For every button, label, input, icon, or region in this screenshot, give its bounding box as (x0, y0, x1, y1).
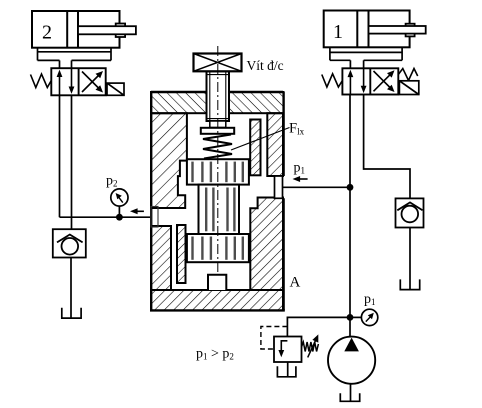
spool stem (199, 185, 240, 234)
wire valve2 A down (59, 95, 61, 217)
body top band right (229, 92, 284, 113)
body outer border (150, 92, 285, 310)
leader line Flx (231, 128, 290, 151)
flow arrow p1 port (293, 176, 308, 182)
body right wall (267, 113, 283, 176)
pedestal stop (208, 275, 226, 290)
body top band left (151, 92, 207, 113)
gauge p2 (111, 189, 128, 217)
spring Flx (203, 135, 232, 159)
spool lower land (187, 234, 249, 262)
valve V1 spring left (322, 74, 343, 87)
tank T2 (62, 308, 81, 318)
gauge p1 (350, 309, 378, 325)
valve V1 solenoid (399, 81, 418, 95)
cylinder 2 body (32, 11, 120, 48)
body bottom band (151, 290, 283, 311)
valve V1 down arrow (361, 68, 367, 93)
cylinder 1 piston (357, 11, 368, 48)
relief valve RV spring (302, 342, 319, 352)
junction node p2 (116, 214, 123, 221)
relief valve RV adjust arrow (308, 334, 319, 357)
tank T3 relief (277, 366, 296, 377)
valve V2 down arrow (69, 68, 75, 94)
body sleeve strip (250, 120, 260, 176)
tank T4 pump (340, 393, 359, 401)
wire valve2 port A up (59, 60, 61, 68)
valve V2 crossed arrows (82, 71, 103, 93)
spool upper land (187, 159, 249, 184)
svg-text:1: 1 (333, 21, 343, 43)
wire main pressure line (349, 95, 351, 340)
body lower left block (151, 226, 171, 290)
wire valve1 B down (364, 95, 410, 199)
right port fitting (275, 176, 283, 198)
wire p1 port horizontal (282, 186, 350, 188)
valve V2 up arrow (57, 70, 63, 96)
svg-text:Vít đ/c: Vít đ/c (247, 58, 284, 73)
valve V2 spring (31, 74, 52, 88)
relief valve RV pilot dashed (261, 327, 288, 350)
centerline (217, 46, 219, 275)
check valve CV2 (53, 229, 86, 257)
valve V1 spring right (398, 69, 417, 81)
svg-text:p1 > p2: p1 > p2 (196, 347, 234, 362)
wire valve2 port B up (71, 60, 73, 68)
tank T1 (400, 279, 419, 289)
body right lower block (250, 198, 283, 291)
wire cyl2 flange (38, 48, 112, 61)
wire p2 horizontal (60, 216, 152, 218)
flow arrow left port (130, 208, 144, 214)
wire valve2 B down (71, 95, 73, 229)
valve V1 body 4/2 (342, 68, 398, 94)
pump P (328, 337, 375, 384)
cylinder 1 body (324, 11, 410, 48)
body drain strip (177, 225, 186, 283)
cylinder 1 rod gland (406, 24, 415, 37)
check valve CV1 (396, 198, 424, 227)
wire pump to tank (350, 384, 352, 401)
cylinder 2 piston rod (78, 26, 136, 34)
valve V1 crossed arrows (374, 70, 395, 92)
junction node p1 port (347, 184, 354, 191)
wire valve1 port B up (363, 60, 365, 68)
cylinder 1 piston rod (369, 26, 426, 34)
valve V1 up arrow (348, 70, 354, 95)
wire valve1 port A up (349, 60, 351, 68)
junction node pump (347, 314, 354, 321)
spring seat plate (201, 128, 234, 134)
wire CV2 to tank (70, 258, 72, 318)
svg-text:A: A (290, 275, 301, 291)
body left wall (151, 113, 187, 208)
cylinder 2 piston (67, 11, 78, 48)
left port mouth (151, 207, 158, 228)
adjustment screw shaft (207, 71, 230, 127)
wire cyl1 flange (330, 47, 402, 60)
valve V2 body 4/2 (51, 68, 105, 95)
svg-text:2: 2 (42, 22, 52, 44)
wire RV to tank (287, 362, 289, 376)
relief valve RV body (274, 337, 302, 363)
screw head Vít đ/c (194, 54, 242, 72)
wire CV1 to tank (409, 228, 411, 290)
relief valve RV wires (287, 317, 350, 336)
valve V2 solenoid (107, 83, 124, 95)
relief valve RV arrow (278, 341, 287, 358)
cylinder 2 rod gland (116, 24, 125, 38)
